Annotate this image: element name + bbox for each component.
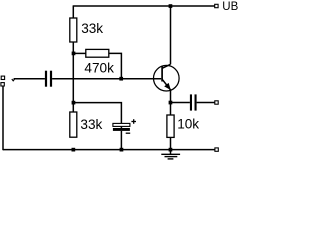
capacitor C1 plates xyxy=(45,71,47,87)
wire branch to C3 xyxy=(73,103,121,124)
transistor Q1 emitter arrow xyxy=(164,83,171,90)
transistor Q1 circle xyxy=(154,65,180,91)
wire divider vertical (R1 bottom to R2 top) xyxy=(72,42,74,112)
resistor R1 33k body xyxy=(70,18,77,42)
transistor Q1 collector diagonal xyxy=(162,64,170,68)
input tick mark xyxy=(12,79,15,81)
wire R3 right lead and drop to base xyxy=(109,53,122,78)
svg-text:UB: UB xyxy=(222,1,238,13)
capacitor C2 plates xyxy=(190,94,192,110)
wire R1 top lead xyxy=(72,5,74,18)
wire C2 to output terminal xyxy=(197,102,215,104)
resistor R4 10k body xyxy=(167,115,174,137)
node ground rail dot xyxy=(169,148,173,152)
wire C3 inter-plate stub xyxy=(120,126,122,128)
terminal input top xyxy=(1,76,4,79)
svg-text:33k: 33k xyxy=(81,21,103,36)
svg-text:470k: 470k xyxy=(84,60,114,75)
transistor Q1 emitter diagonal xyxy=(162,79,170,90)
wire C3 bottom lead xyxy=(120,131,122,150)
node R2 bottom rail dot xyxy=(72,148,76,152)
terminal output bottom xyxy=(215,148,218,151)
wire bottom rail xyxy=(3,149,215,151)
wire node A to R3 xyxy=(74,52,86,54)
wire input to C1 xyxy=(14,78,45,80)
wire left input ground drop xyxy=(2,86,4,150)
wire collector vertical xyxy=(170,6,172,64)
wire R4 bottom lead xyxy=(170,137,172,149)
capacitor C3 plus sign xyxy=(131,121,136,123)
node R2 top branch dot xyxy=(72,101,76,105)
wire C1 to base xyxy=(52,78,161,80)
wire emitter to C2 xyxy=(171,102,190,104)
ground symbol xyxy=(170,150,172,155)
terminal input bottom xyxy=(1,83,4,86)
resistor R2 33k body xyxy=(70,112,77,137)
terminal output top xyxy=(215,101,218,104)
transistor Q1 base bar xyxy=(161,67,163,82)
node base junction dot xyxy=(119,77,123,81)
svg-text:10k: 10k xyxy=(177,117,199,132)
capacitor C3 positive plate (hollow) xyxy=(113,123,130,126)
svg-text:33k: 33k xyxy=(80,117,102,132)
capacitor C3 negative plate (solid) xyxy=(113,128,130,131)
wire emitter vertical xyxy=(170,90,172,115)
resistor R3 470k body xyxy=(86,49,109,57)
node emitter dot xyxy=(169,101,173,105)
node A divider tap dot xyxy=(72,52,76,56)
node C3 bottom rail dot xyxy=(120,148,124,152)
wire top supply rail xyxy=(73,5,215,7)
capacitor C3 minus sign xyxy=(126,132,131,134)
terminal UB xyxy=(215,4,218,7)
node collector rail dot xyxy=(169,4,173,8)
